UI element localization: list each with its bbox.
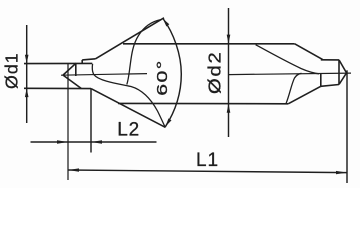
arrowhead L1 right [336,171,347,174]
right cone top flute curve [256,45,319,74]
arrowhead L1 left [68,168,79,171]
arrowhead Od2 bottom [227,104,231,113]
extension line L1 right [346,70,348,183]
body bottom edge [118,102,288,104]
right tip upper edge [339,60,347,73]
right cone bottom flute curve [286,73,302,103]
arrowhead Od1 top [25,55,29,64]
svg-text:Ød2: Ød2 [205,51,225,94]
right pilot face [338,60,340,85]
right pilot bottom edge [321,85,339,87]
right cone upper flank [295,44,323,60]
left tip lower edge [63,75,81,88]
left cone lower flute curve [92,64,165,127]
extension line L2 right [90,89,92,153]
left tip upper edge [63,63,76,75]
arrowhead Od1 bottom [25,88,29,97]
svg-text:L1: L1 [196,150,219,171]
left cone lower flank extended [91,89,166,128]
arrowhead L2 left outside [57,140,68,143]
left extension line for L1 L2 [67,64,69,180]
dimension line Od2 [228,8,230,137]
arrowhead arc bottom [165,118,171,126]
left cone upper flank extended [96,18,165,59]
svg-text:L2: L2 [117,119,140,140]
left collar land [82,59,95,60]
axis centerline left segment [61,74,147,76]
svg-text:Ød1: Ød1 [2,52,22,89]
dimension line L2 [31,141,157,143]
dimension line Od1 [26,25,28,123]
left collar step [81,60,83,64]
body top edge [123,43,295,45]
axis centerline right segment [229,73,351,75]
left pilot bottom edge with Od1 extension [24,87,91,89]
angle dimension arc 60 deg [163,19,181,127]
right cone lower flank [288,86,321,104]
right junction line [320,74,322,86]
left cone upper flute curve [127,20,161,85]
left tip face [75,64,77,77]
arrowhead arc top [163,19,170,27]
arrowhead Od2 top [227,35,231,44]
right pilot top edge [321,59,339,61]
left pilot top edge with Od1 extension [24,62,92,64]
dimension line L1 [68,170,347,173]
right tip lower edge [339,73,347,85]
svg-text:60°: 60° [153,59,170,95]
arrowhead L2 right outside [91,140,102,143]
